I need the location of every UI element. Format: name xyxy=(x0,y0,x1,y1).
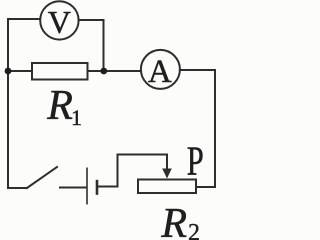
wire: switch pivot stub xyxy=(8,187,27,189)
wire: left rail (top-left corner down to switch corner) xyxy=(7,19,9,188)
svg-text:P: P xyxy=(187,137,204,183)
rheostat R2 body xyxy=(138,180,196,194)
voltmeter V xyxy=(40,1,78,39)
node: left junction dot xyxy=(5,68,12,75)
wire: right rail down xyxy=(214,70,216,187)
wire: ammeter to top-right corner of right rail xyxy=(180,69,215,71)
svg-text:V: V xyxy=(48,4,71,40)
svg-text:A: A xyxy=(148,54,172,90)
wire: wiper arrow shaft xyxy=(166,155,168,171)
wire: voltmeter right to top-right corner xyxy=(79,19,104,21)
wire: right rail bottom to rheostat right terminal xyxy=(196,186,215,188)
resistor R1 xyxy=(32,63,88,80)
wire: wiper riser and horizontal tap xyxy=(118,155,168,187)
wire: battery negative to wiper riser xyxy=(97,186,118,188)
battery cell: short negative plate xyxy=(96,180,99,195)
node: right junction dot xyxy=(100,68,107,75)
wire: resistor R1 to ammeter xyxy=(88,70,142,72)
wire: main rail from left junction to resistor R1 xyxy=(8,70,32,72)
ammeter A xyxy=(141,50,180,89)
wire: top wire from left corner to voltmeter xyxy=(8,18,40,20)
svg-text:1: 1 xyxy=(71,105,82,130)
svg-text:R: R xyxy=(160,201,187,240)
wiper arrowhead xyxy=(162,169,172,179)
battery cell: long positive plate xyxy=(86,168,88,205)
wire: switch fixed contact to battery positive xyxy=(60,187,86,189)
svg-text:R: R xyxy=(46,83,73,129)
svg-text:2: 2 xyxy=(188,220,200,240)
wire: vertical drop from top-right corner to junction xyxy=(103,20,105,71)
switch S lever (open) xyxy=(27,167,57,188)
